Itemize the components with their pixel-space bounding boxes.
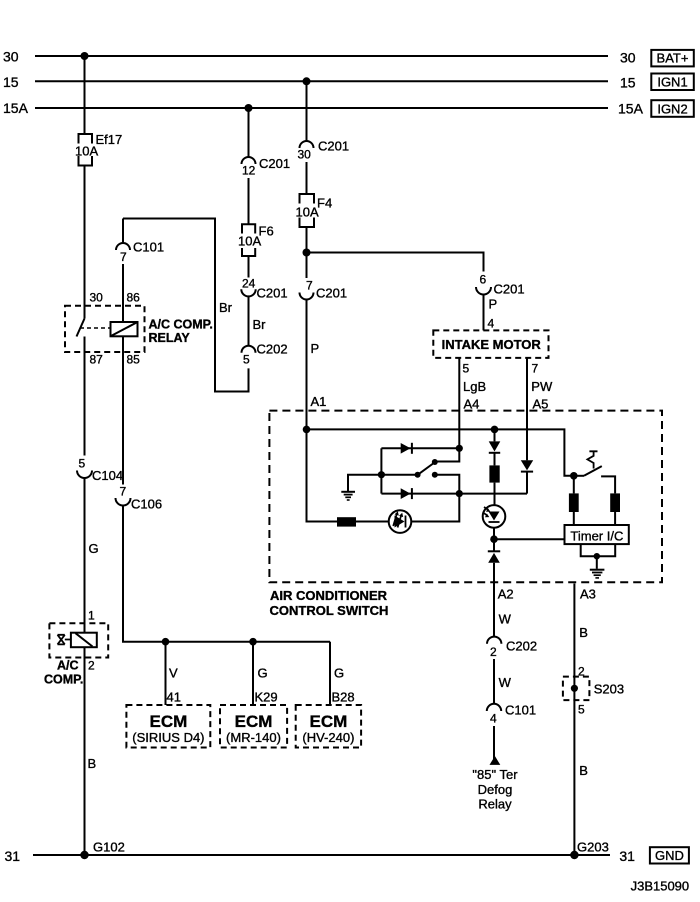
diode D2 bottom branch: [381, 488, 527, 499]
connector C201 pin 6: [476, 273, 525, 297]
svg-text:30: 30: [3, 49, 19, 65]
fuse F4 10A: [296, 194, 333, 227]
svg-text:S203: S203: [594, 682, 624, 697]
wire intake pin7 down to A5 diode, labels 7 PW A5: [527, 358, 553, 460]
wire junction to C201-6 (intake feed): [307, 253, 484, 272]
wire drop to ECM HV-240, label G B28: [330, 642, 355, 705]
wire LED1 to A4 node: [411, 494, 459, 522]
relay coil: [111, 322, 138, 336]
wire Ef17 to relay pin30: [84, 166, 86, 319]
LED2 indicator (photo): [483, 505, 506, 528]
svg-text:A2: A2: [498, 587, 514, 602]
connector C201 pin 24: [241, 277, 287, 301]
wire bus15 down to C201-30: [306, 81, 308, 141]
wire bus15A down to C201-12: [248, 108, 250, 157]
svg-text:15A: 15A: [3, 100, 29, 116]
node GND box: [650, 847, 689, 863]
svg-text:12: 12: [242, 164, 256, 178]
wire ground bus to switch pole: [381, 474, 417, 476]
svg-text:7: 7: [120, 485, 127, 499]
wire bus 15 (IGN1): [35, 80, 608, 82]
svg-text:C101: C101: [505, 703, 536, 718]
svg-text:10A: 10A: [296, 205, 319, 220]
wire C201-6 to INTAKE MOTOR, labels P 4: [483, 295, 485, 331]
LED1 illumination lamp: [389, 510, 412, 533]
svg-text:G: G: [258, 666, 268, 681]
svg-text:C201: C201: [259, 156, 290, 171]
resistor R4 (right timer): [610, 493, 620, 525]
junction A2/timer feed: [490, 535, 498, 543]
junction G203 on bus31: [570, 851, 578, 859]
svg-text:ECM: ECM: [235, 712, 273, 731]
svg-text:ECM: ECM: [150, 712, 188, 731]
wire A4 to switch upper throw: [437, 448, 459, 461]
junction ECM feed V: [162, 638, 170, 646]
svg-text:C201: C201: [257, 286, 288, 301]
wire C201-12 to fuse F6: [248, 178, 250, 224]
svg-text:C201: C201: [318, 139, 349, 154]
svg-text:ECM: ECM: [310, 712, 348, 731]
svg-text:GND: GND: [655, 848, 684, 863]
svg-text:AIR CONDITIONER: AIR CONDITIONER: [270, 588, 388, 603]
wire C202-5 corridor down-left-up to C101, label Br: [123, 219, 249, 392]
wire bus 15A (IGN2): [35, 107, 608, 109]
svg-text:4: 4: [488, 317, 495, 331]
connector C202 pin 2: [487, 637, 537, 659]
fuse Ef17 10A: [75, 132, 122, 166]
svg-text:31: 31: [5, 848, 21, 864]
svg-text:A1: A1: [311, 394, 327, 409]
svg-text:85: 85: [127, 353, 141, 367]
svg-text:(SIRIUS D4): (SIRIUS D4): [132, 730, 204, 745]
wire A3 below box, labels A3 B: [573, 584, 575, 856]
junction ECM feed G: [249, 638, 257, 646]
ECM (SIRIUS D4) box: [126, 705, 210, 748]
ECM (HV-240) box: [296, 705, 361, 748]
relay coil dashed link: [80, 327, 111, 329]
svg-text:30: 30: [90, 291, 104, 305]
relay A/C COMP. RELAY: [65, 291, 213, 367]
svg-text:7: 7: [120, 250, 127, 264]
wire timer ground stubs: [581, 544, 616, 556]
wire bus 30 (BAT+): [35, 55, 608, 57]
resistor R2 middle chain: [489, 465, 499, 482]
junction timer switch node: [570, 472, 578, 480]
svg-text:5: 5: [243, 353, 250, 367]
svg-text:Br: Br: [219, 300, 233, 315]
wire C106 down and ECM feed line: [123, 506, 330, 642]
svg-text:CONTROL SWITCH: CONTROL SWITCH: [270, 603, 389, 618]
junction timer ground: [594, 553, 600, 559]
svg-text:B: B: [88, 756, 97, 771]
A/C COMP. compressor clutch: [44, 609, 108, 687]
svg-text:5: 5: [463, 362, 470, 376]
svg-text:15: 15: [3, 74, 19, 90]
wire lower throw to A4 bottom node: [435, 475, 460, 494]
svg-text:7: 7: [306, 279, 313, 293]
ECM (MR-140) box: [220, 705, 287, 748]
diode D1 top branch: [381, 443, 459, 454]
connector C202 pin 5: [242, 342, 288, 367]
connector C201 pin 12: [242, 156, 291, 178]
svg-text:J3B15090: J3B15090: [631, 879, 690, 894]
wire bus30 to fuse Ef17: [84, 56, 86, 134]
junction A4 bottom: [456, 490, 463, 497]
wire C201-30 to fuse F4: [306, 162, 308, 194]
wire C202-2 to C101-4, label W: [493, 659, 495, 704]
connector C101 pin 4: [487, 703, 536, 726]
svg-text:10A: 10A: [75, 144, 98, 159]
svg-text:IGN1: IGN1: [657, 75, 687, 90]
svg-text:G102: G102: [93, 840, 125, 855]
splice S203: [563, 665, 624, 717]
junction ground on left vertical: [378, 471, 385, 478]
wire intake pin5 down to switch box, labels 5 LgB A4: [459, 358, 486, 448]
clutch valve symbol: [58, 635, 71, 645]
wire F4 down to junction: [306, 227, 308, 278]
diode D4 on A2 drop: [488, 539, 500, 584]
svg-text:P: P: [311, 341, 320, 356]
junction on bus15A at x248.5: [245, 104, 253, 112]
svg-text:15A: 15A: [618, 101, 644, 117]
svg-text:2: 2: [88, 659, 95, 673]
svg-text:Timer I/C: Timer I/C: [570, 529, 623, 544]
junction G102 on bus31: [80, 851, 88, 859]
junction middle chain on top rail: [491, 426, 499, 434]
svg-text:B28: B28: [332, 690, 355, 705]
diode D5 on A5 wire: [521, 460, 533, 493]
svg-text:W: W: [499, 675, 512, 690]
wire A2 below box, label A2 W: [493, 584, 495, 637]
svg-text:4: 4: [490, 712, 497, 726]
svg-text:6: 6: [480, 273, 487, 287]
svg-text:P: P: [489, 297, 498, 312]
connector C201 pin 7: [300, 279, 348, 301]
svg-text:A/C COMP.: A/C COMP.: [149, 318, 213, 332]
wire to ground G1: [348, 475, 381, 491]
wire drop to ECM MR-140, label G K29: [253, 642, 278, 705]
svg-text:30: 30: [620, 50, 636, 66]
svg-text:RELAY: RELAY: [149, 331, 191, 345]
junction on bus30 at x84.5: [81, 52, 89, 60]
contact right of S2: [601, 476, 615, 493]
svg-text:F4: F4: [317, 196, 332, 211]
junction on bus15 at x306.5: [303, 77, 311, 85]
wire to ground G2: [596, 556, 598, 569]
node BAT+ box: [651, 50, 694, 67]
junction A4 top: [456, 445, 463, 452]
svg-text:30: 30: [298, 148, 312, 162]
ground G2: [590, 570, 605, 578]
junction intake branch: [303, 249, 311, 257]
connector C106 pin 7: [116, 485, 163, 512]
svg-text:C201: C201: [316, 286, 347, 301]
A/C control switch dashed box: [269, 411, 662, 583]
svg-text:PW: PW: [531, 379, 553, 394]
svg-text:87: 87: [90, 353, 104, 367]
svg-text:1: 1: [88, 609, 95, 623]
svg-text:G: G: [334, 666, 344, 681]
svg-text:Defog: Defog: [478, 782, 513, 797]
svg-text:G203: G203: [577, 840, 609, 855]
svg-text:7: 7: [532, 362, 539, 376]
ground G1: [341, 492, 355, 500]
wire bus 31 (ground bus): [33, 854, 610, 856]
arrow to "85" Ter Defog Relay: [490, 756, 501, 765]
svg-text:Br: Br: [253, 317, 267, 332]
wire C201-7 down to control box, labels P A1: [306, 300, 308, 430]
wire C101-4 to defog relay arrow: [493, 726, 495, 764]
svg-text:C104: C104: [92, 468, 123, 483]
switch S1 left vertical: [380, 448, 382, 493]
contact upper throw: [432, 459, 438, 465]
svg-text:V: V: [169, 666, 178, 681]
connector C201 pin 30: [298, 139, 350, 162]
svg-text:B: B: [579, 625, 588, 640]
svg-text:Ef17: Ef17: [96, 132, 123, 147]
svg-text:41: 41: [167, 690, 181, 705]
connector C101 pin 7 (relay coil feed): [116, 240, 164, 265]
wire R2 to LED2: [494, 483, 496, 506]
node IGN1 box: [651, 74, 694, 91]
svg-text:A4: A4: [464, 397, 480, 412]
svg-text:(MR-140): (MR-140): [226, 730, 281, 745]
wire F6 to C201-24: [248, 256, 250, 278]
svg-text:10A: 10A: [238, 234, 261, 249]
svg-text:B: B: [579, 763, 588, 778]
svg-text:5: 5: [578, 703, 585, 717]
svg-text:INTAKE MOTOR: INTAKE MOTOR: [442, 337, 542, 352]
wire junction to Timer I/C: [494, 538, 565, 540]
op-amp U1 Timer I/C box: [565, 525, 629, 544]
wire drop to ECM SIRIUS, label V 41: [166, 642, 181, 705]
svg-text:W: W: [499, 612, 512, 627]
svg-text:C202: C202: [506, 639, 537, 654]
node AIR CONDITIONER CONTROL SWITCH label: [270, 588, 389, 618]
svg-text:"85" Ter: "85" Ter: [472, 767, 518, 782]
wire A1 down to lamp chain: [307, 429, 338, 521]
node IGN2 box: [651, 100, 694, 117]
fuse F6 10A: [238, 224, 274, 257]
wire C104 to A/C COMP, label G: [84, 478, 86, 633]
resistor R1 (illumination): [337, 517, 356, 526]
svg-text:A3: A3: [580, 587, 596, 602]
svg-text:K29: K29: [255, 690, 278, 705]
wire C101 upper stub: [122, 219, 124, 244]
contact lower throw: [432, 472, 438, 478]
svg-text:15: 15: [620, 75, 636, 91]
wire relay pin87 down to C104: [84, 337, 86, 456]
INTAKE MOTOR box: [433, 330, 548, 358]
contact pole: [415, 472, 421, 478]
connector C104 pin 5: [77, 457, 123, 484]
relay switch blade: [77, 319, 85, 337]
wire LED2 to A2 junction: [493, 528, 495, 540]
svg-text:A5: A5: [533, 397, 549, 412]
svg-text:C201: C201: [494, 282, 525, 297]
wire top rail A1 to timer corner: [307, 429, 574, 475]
svg-text:2: 2: [490, 645, 497, 659]
pushbutton switch S2: [574, 451, 615, 493]
svg-text:Relay: Relay: [478, 797, 512, 812]
svg-text:86: 86: [127, 291, 141, 305]
wire C201-24 to C202-5, label Br: [248, 296, 250, 345]
svg-text:31: 31: [619, 848, 635, 864]
svg-text:BAT+: BAT+: [657, 51, 689, 66]
svg-text:A/C: A/C: [57, 659, 79, 673]
node "85" Ter Defog Relay label: [472, 767, 518, 812]
svg-text:5: 5: [79, 457, 86, 471]
clutch coil: [71, 633, 97, 648]
svg-text:24: 24: [242, 277, 256, 291]
svg-text:C106: C106: [131, 497, 162, 512]
wire A/C COMP to bus31, label B: [84, 647, 86, 855]
svg-text:(HV-240): (HV-240): [302, 730, 354, 745]
switch blade S1: [419, 463, 435, 475]
wire R1 to LED1: [356, 521, 389, 523]
diode D3 middle chain: [489, 429, 501, 465]
svg-text:C101: C101: [133, 240, 164, 255]
svg-text:COMP.: COMP.: [44, 673, 83, 687]
wire C101 to relay coil pin86: [122, 264, 124, 322]
svg-text:C202: C202: [257, 342, 288, 357]
svg-text:LgB: LgB: [463, 379, 486, 394]
wire relay coil pin85 down to C106: [122, 336, 124, 484]
junction A1 on top rail: [303, 426, 311, 434]
svg-text:G: G: [89, 541, 99, 556]
resistor R3 (left timer): [569, 476, 579, 525]
svg-text:IGN2: IGN2: [657, 102, 687, 117]
